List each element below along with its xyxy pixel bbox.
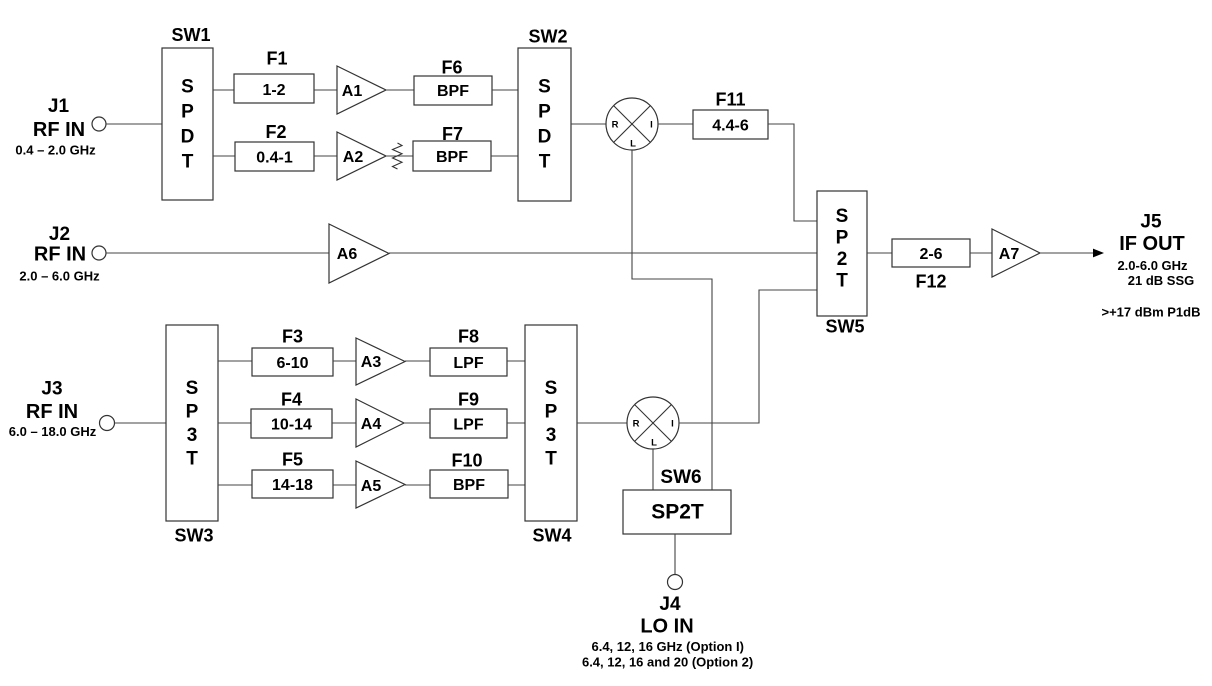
filter F2 box (235, 142, 314, 171)
svg-text:A2: A2 (343, 149, 364, 166)
svg-text:A6: A6 (337, 246, 358, 263)
filter F11 box (693, 110, 768, 139)
filter F3 box (252, 348, 333, 376)
filter F12 box (892, 239, 970, 267)
wire F3 to A3 (333, 360, 356, 362)
wire A2 to F7 (386, 155, 413, 157)
switch SW6 box SP2T (623, 490, 731, 534)
svg-text:S: S (186, 378, 199, 399)
svg-text:SW3: SW3 (174, 526, 213, 546)
svg-text:LO IN: LO IN (640, 616, 693, 638)
svg-text:BPF: BPF (453, 477, 485, 494)
label J5 IF OUT (1102, 211, 1201, 319)
svg-text:F7: F7 (442, 124, 463, 144)
svg-text:D: D (181, 126, 195, 147)
wire mixer M2 LO to SW6 (652, 449, 654, 490)
wire SW5 to F12 (867, 252, 892, 254)
switch SW1 box (162, 48, 213, 200)
svg-text:A1: A1 (342, 83, 363, 100)
svg-text:A3: A3 (361, 354, 382, 371)
amplifier A5 (356, 461, 405, 508)
svg-text:BPF: BPF (436, 149, 468, 166)
svg-text:3: 3 (546, 425, 557, 446)
mixer M1 (606, 98, 658, 150)
label SW1 (171, 25, 210, 45)
label F10 (451, 451, 482, 471)
wire A6 to SW5 input 2 (389, 252, 817, 254)
svg-text:6.4, 12, 16 GHz (Option I): 6.4, 12, 16 GHz (Option I) (591, 639, 743, 654)
wire SW1 to F2 (213, 155, 235, 157)
svg-text:I: I (671, 418, 674, 429)
svg-text:J3: J3 (41, 378, 62, 399)
svg-text:T: T (182, 151, 194, 172)
filter F8 box (430, 348, 507, 376)
svg-text:4.4-6: 4.4-6 (712, 117, 749, 134)
svg-text:F4: F4 (281, 390, 302, 410)
label F1 (266, 49, 287, 69)
filter F4 box (251, 409, 332, 438)
svg-text:L: L (630, 138, 636, 149)
wire mixer M1 LO to SW6 (632, 150, 712, 490)
svg-text:10-14: 10-14 (271, 416, 312, 433)
svg-text:A4: A4 (361, 416, 382, 433)
label SW4 (532, 526, 571, 546)
svg-text:S: S (181, 76, 194, 97)
wire SW2 to mixer M1 (571, 123, 606, 125)
wire F9 to SW4 (507, 422, 525, 424)
switch SW3 box (166, 325, 218, 521)
svg-text:LPF: LPF (453, 416, 483, 433)
wire SW6 to J4 (674, 534, 676, 575)
switch SW4 letters SP3T (545, 378, 558, 470)
svg-text:P: P (181, 101, 194, 122)
svg-text:F3: F3 (282, 327, 303, 347)
svg-text:14-18: 14-18 (272, 477, 313, 494)
svg-text:P: P (836, 227, 849, 248)
wire F4 to A4 (332, 422, 356, 424)
svg-text:2-6: 2-6 (919, 246, 942, 263)
wire F1 to A1 (314, 89, 337, 91)
svg-text:LPF: LPF (453, 355, 483, 372)
connector J2 (RF IN 2.0-6.0 GHz) (92, 246, 106, 260)
label F8 (458, 327, 479, 347)
svg-text:2.0-6.0 GHz: 2.0-6.0 GHz (1117, 258, 1188, 273)
svg-text:6.4, 12, 16 and 20 (Option 2): 6.4, 12, 16 and 20 (Option 2) (582, 655, 753, 670)
label SW2 (528, 27, 567, 47)
filter F5 box (252, 470, 333, 498)
wire SW1 to F1 (213, 89, 234, 91)
label F7 (442, 124, 463, 144)
wire A4 to F9 (404, 422, 430, 424)
svg-text:RF IN: RF IN (34, 244, 86, 266)
amplifier A7 (992, 229, 1040, 277)
svg-text:R: R (633, 418, 640, 429)
switch SW5 letters SP2T (836, 206, 849, 291)
wire SW3 to F5 (218, 484, 252, 486)
svg-text:F10: F10 (451, 451, 482, 471)
svg-text:SW4: SW4 (532, 526, 571, 546)
label F9 (458, 390, 479, 410)
wire SW3 to F3 (218, 360, 252, 362)
label J3 RF IN (9, 378, 97, 439)
connector J4 (LO IN) (668, 575, 683, 590)
switch SW3 letters SP3T (186, 378, 199, 470)
label J4 LO IN (582, 594, 753, 670)
wire J3 to SW3 (115, 422, 167, 424)
svg-text:SP2T: SP2T (651, 501, 704, 524)
label SW6 (660, 467, 701, 488)
svg-text:T: T (539, 151, 551, 172)
switch SW2 letters SPDT (538, 76, 552, 172)
svg-text:SW2: SW2 (528, 27, 567, 47)
switch SW5 box (817, 191, 867, 316)
svg-text:F2: F2 (265, 122, 286, 142)
svg-text:P: P (545, 401, 558, 422)
svg-text:F1: F1 (266, 49, 287, 69)
svg-text:F8: F8 (458, 327, 479, 347)
svg-text:T: T (545, 448, 557, 469)
label SW3 (174, 526, 213, 546)
filter F6 box (414, 76, 492, 105)
svg-text:F9: F9 (458, 390, 479, 410)
label F12 (915, 272, 946, 292)
svg-text:T: T (186, 448, 198, 469)
amplifier A3 (356, 338, 405, 385)
svg-text:J1: J1 (48, 96, 70, 117)
svg-text:J2: J2 (49, 224, 70, 245)
wire F5 to A5 (333, 484, 356, 486)
switch SW2 box (518, 48, 571, 201)
amplifier A4 (356, 399, 404, 447)
connector J1 (RF IN 0.4-2.0 GHz) (92, 117, 106, 131)
wire F2 to A2 (314, 155, 337, 157)
attenuator zigzag after A2 (393, 143, 403, 169)
wire A3 to F8 (405, 360, 430, 362)
svg-text:F5: F5 (282, 450, 303, 470)
svg-text:21 dB SSG: 21 dB SSG (1128, 273, 1194, 288)
svg-text:2.0 – 6.0 GHz: 2.0 – 6.0 GHz (19, 269, 100, 284)
svg-text:BPF: BPF (437, 83, 469, 100)
filter F1 box (234, 74, 314, 103)
svg-text:F11: F11 (715, 90, 745, 110)
wire F7 to SW2 (491, 155, 518, 157)
svg-text:3: 3 (187, 425, 198, 446)
wire mixer M2 to SW5 input 3 (679, 290, 817, 423)
svg-text:SW5: SW5 (825, 317, 864, 337)
svg-text:D: D (538, 126, 552, 147)
label F5 (282, 450, 303, 470)
label J1 RF IN (15, 96, 96, 158)
svg-text:J5: J5 (1140, 211, 1162, 232)
filter F9 box (430, 409, 507, 438)
svg-text:J4: J4 (659, 594, 681, 615)
label F11 (715, 90, 745, 110)
amplifier A1 (337, 66, 386, 114)
amplifier A2 (337, 132, 386, 180)
filter F10 box (430, 470, 508, 498)
label F2 (265, 122, 286, 142)
svg-text:6-10: 6-10 (276, 355, 308, 372)
svg-text:S: S (836, 206, 849, 227)
svg-text:>+17 dBm P1dB: >+17 dBm P1dB (1102, 305, 1201, 320)
label F4 (281, 390, 302, 410)
svg-text:SW1: SW1 (171, 25, 210, 45)
wire F8 to SW4 (507, 360, 525, 362)
svg-text:P: P (186, 401, 199, 422)
filter F7 box (413, 141, 491, 171)
svg-text:T: T (836, 270, 848, 291)
svg-text:IF OUT: IF OUT (1119, 233, 1185, 255)
svg-text:F6: F6 (441, 58, 462, 78)
svg-text:S: S (538, 76, 551, 97)
wire A5 to F10 (405, 484, 430, 486)
mixer M2 (627, 397, 679, 449)
wire mixer M1 to F11 (658, 123, 693, 125)
svg-text:P: P (538, 101, 551, 122)
svg-text:R: R (612, 119, 619, 130)
wire A1 to F6 (386, 89, 414, 91)
wire J2 to A6 (106, 252, 329, 254)
svg-text:F12: F12 (915, 272, 946, 292)
switch SW1 letters SPDT (181, 76, 195, 172)
svg-text:2: 2 (837, 249, 848, 270)
label J2 RF IN (19, 224, 100, 284)
wire F6 to SW2 (492, 89, 518, 91)
wire SW3 to F4 (218, 422, 251, 424)
svg-text:SW6: SW6 (660, 467, 701, 488)
amplifier A6 (329, 224, 389, 283)
svg-text:I: I (650, 119, 653, 130)
connector J3 (RF IN 6.0-18.0 GHz) (100, 416, 115, 431)
label SW5 (825, 317, 864, 337)
svg-text:A5: A5 (361, 478, 382, 495)
wire F10 to SW4 (508, 484, 525, 486)
svg-text:A7: A7 (999, 246, 1020, 263)
svg-text:S: S (545, 378, 558, 399)
svg-text:0.4-1: 0.4-1 (256, 149, 293, 166)
label F6 (441, 58, 462, 78)
svg-text:RF IN: RF IN (33, 119, 85, 141)
svg-text:0.4 – 2.0 GHz: 0.4 – 2.0 GHz (15, 143, 96, 158)
wire SW4 to mixer M2 (577, 422, 627, 424)
svg-text:L: L (651, 437, 657, 448)
wire A7 to J5 with arrowhead (1040, 249, 1104, 258)
wire F12 to A7 (970, 252, 992, 254)
svg-text:1-2: 1-2 (262, 82, 285, 99)
switch SW4 box (525, 325, 577, 521)
label F3 (282, 327, 303, 347)
wire J1 to SW1 (106, 123, 162, 125)
svg-text:6.0 – 18.0 GHz: 6.0 – 18.0 GHz (9, 424, 97, 439)
svg-text:RF IN: RF IN (26, 401, 78, 423)
wire F11 to SW5 input 1 (768, 124, 817, 221)
